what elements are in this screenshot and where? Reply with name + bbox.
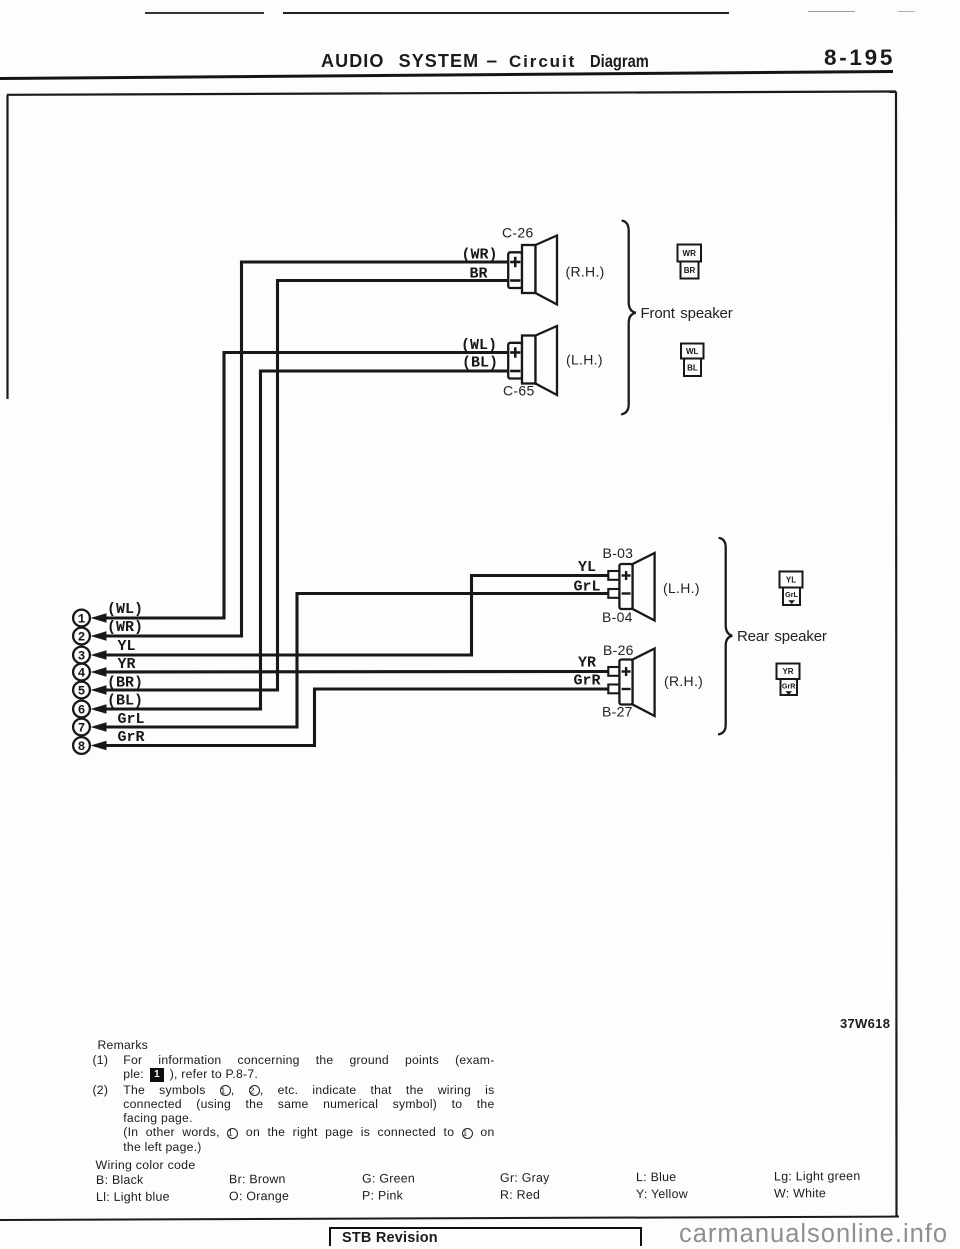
svg-text:(R.H.): (R.H.) [664, 673, 703, 689]
svg-text:(R.H.): (R.H.) [566, 264, 605, 280]
svg-text:(L.H.): (L.H.) [566, 352, 603, 368]
svg-text:GrL: GrL [785, 590, 798, 599]
svg-text:(WL): (WL) [107, 601, 143, 618]
svg-text:(WR): (WR) [462, 247, 498, 264]
svg-text:BR: BR [470, 266, 488, 283]
svg-text:(BR): (BR) [107, 675, 143, 692]
svg-text:B-04: B-04 [602, 609, 633, 625]
svg-text:BR: BR [684, 266, 696, 275]
svg-text:B-26: B-26 [603, 642, 634, 658]
svg-text:YL: YL [578, 559, 596, 576]
svg-text:YR: YR [782, 667, 793, 676]
svg-text:BL: BL [687, 364, 698, 373]
svg-text:GrR: GrR [782, 682, 796, 691]
svg-text:C-65: C-65 [503, 383, 535, 399]
svg-text:GrL: GrL [118, 711, 145, 728]
svg-text:B-27: B-27 [602, 704, 633, 720]
svg-text:5: 5 [78, 684, 86, 698]
svg-text:(BL): (BL) [462, 355, 498, 372]
svg-text:YL: YL [786, 576, 796, 585]
svg-text:YL: YL [118, 638, 136, 655]
svg-text:Front speaker: Front speaker [641, 305, 733, 322]
svg-text:GrR: GrR [574, 673, 601, 690]
svg-text:6: 6 [78, 703, 86, 717]
svg-text:(WL): (WL) [461, 337, 497, 354]
svg-text:C-26: C-26 [502, 225, 534, 241]
svg-text:8: 8 [78, 740, 86, 754]
svg-text:3: 3 [78, 649, 86, 663]
svg-text:(L.H.): (L.H.) [663, 580, 700, 596]
svg-text:7: 7 [78, 721, 86, 735]
svg-text:4: 4 [78, 666, 86, 680]
svg-text:WR: WR [683, 249, 697, 258]
svg-text:WL: WL [686, 347, 699, 356]
svg-text:YR: YR [118, 656, 136, 673]
svg-text:(WR): (WR) [107, 619, 143, 636]
svg-text:2: 2 [78, 630, 86, 644]
svg-text:Rear speaker: Rear speaker [737, 628, 827, 645]
svg-text:(BL): (BL) [107, 693, 143, 710]
svg-text:B-03: B-03 [603, 545, 634, 561]
svg-text:YR: YR [578, 655, 596, 672]
svg-text:1: 1 [78, 612, 86, 626]
svg-text:GrR: GrR [118, 729, 145, 746]
svg-text:GrL: GrL [574, 579, 601, 596]
